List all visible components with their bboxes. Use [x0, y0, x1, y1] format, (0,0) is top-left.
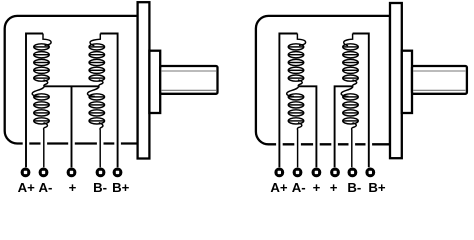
wire B- lead with coil exit (right motor) [352, 123, 357, 168]
wire B+ lead (left motor) [100, 34, 117, 168]
wire B+ lead (right motor) [353, 34, 369, 168]
wire A- lead with coil exit (right motor) [297, 123, 301, 168]
svg-text:+: + [313, 180, 321, 195]
wire common + lead (left motor) [71, 86, 73, 167]
coil A top exit to tap (right motor) [298, 80, 302, 86]
wire A+ lead (right motor) [279, 34, 297, 168]
coil A bottom entry (left motor) [32, 86, 44, 96]
body bottom line gaps (left) [23, 141, 121, 146]
coil B bottom entry (left motor) [87, 86, 99, 96]
body bottom line gaps (right) [276, 142, 372, 147]
front boss (right motor) [402, 51, 412, 113]
coil A bottom entry (right motor) [287, 86, 299, 96]
front boss (left motor) [149, 51, 160, 113]
terminal A+ (right) [274, 168, 284, 178]
terminal B- (right) [348, 168, 358, 178]
coil B bottom winding L4 (right motor) [343, 94, 359, 124]
phase A center tap (right motor) [298, 86, 316, 167]
svg-text:B+: B+ [368, 180, 386, 195]
coil A top exit to tap (left motor) [44, 80, 48, 86]
svg-text:A+: A+ [270, 180, 288, 195]
terminal B- (left) [96, 168, 106, 178]
svg-text:B-: B- [93, 180, 107, 195]
center tap bus (left motor) [44, 85, 99, 87]
terminal + phase B (right) [330, 168, 340, 178]
wire A+ lead (left motor) [26, 34, 43, 168]
motor body (right motor) [256, 16, 390, 144]
coil A top entry (right motor) [297, 34, 305, 46]
coil B top entry (left motor) [90, 34, 100, 46]
wire B- lead with coil exit (left motor) [99, 123, 103, 168]
coil A bottom winding L2 (right motor) [288, 94, 304, 124]
coil A bottom winding L2 (left motor) [34, 94, 50, 124]
terminal A- (left) [39, 168, 49, 178]
mounting flange (right motor) [390, 3, 402, 158]
svg-text:A-: A- [292, 180, 306, 195]
terminal B+ (left) [113, 168, 123, 178]
shaft (right motor) [412, 66, 467, 94]
coil B top exit to tap (left motor) [99, 80, 103, 86]
svg-text:B-: B- [347, 180, 361, 195]
svg-text:B+: B+ [112, 180, 130, 195]
svg-text:+: + [69, 180, 77, 195]
terminal + phase A (right) [312, 168, 322, 178]
coil A top winding L1 (right motor) [288, 44, 304, 81]
terminal B+ (right) [365, 168, 375, 178]
coil A top entry (left motor) [43, 34, 51, 46]
coil B bottom winding L4 (left motor) [89, 94, 105, 124]
coil A top winding L1 (left motor) [34, 44, 50, 81]
mounting flange (left motor) [138, 2, 150, 158]
terminal A+ (left) [21, 168, 31, 178]
terminal A- (right) [293, 168, 303, 178]
coil B top exit to tap (right motor) [353, 80, 357, 86]
svg-text:A+: A+ [18, 180, 36, 195]
coil B top winding L3 (left motor) [89, 44, 105, 81]
svg-text:+: + [330, 180, 338, 195]
shaft (left motor) [160, 66, 217, 94]
svg-text:A-: A- [39, 180, 53, 195]
terminal + common (left) [67, 168, 77, 178]
coil B top entry (right motor) [344, 34, 353, 46]
coil B top winding L3 (right motor) [343, 44, 359, 81]
phase B center tap (right motor) [335, 86, 353, 167]
coil B bottom entry (right motor) [341, 86, 353, 96]
motor body (left motor) [5, 16, 138, 144]
wire A- lead with coil exit (left motor) [44, 123, 48, 168]
